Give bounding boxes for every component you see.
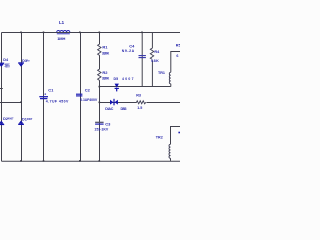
wire C4 branch x142 (141, 33, 143, 87)
svg-text:330K: 330K (102, 52, 110, 56)
resistor R2 (98, 69, 101, 80)
svg-text:TR2: TR2 (156, 135, 163, 139)
svg-text:C1: C1 (48, 88, 54, 93)
wire TR2 lower lead (170, 158, 172, 161)
svg-text:4007: 4007 (122, 77, 134, 81)
svg-text:153-1KV: 153-1KV (94, 128, 108, 132)
wire C1 branch x43.5 (43, 33, 45, 162)
svg-text:DIAC: DIAC (105, 107, 114, 111)
wire TR1 from right edge (171, 52, 180, 73)
svg-text:6: 6 (176, 54, 178, 58)
wire C2 branch x79.8 (80, 33, 82, 162)
diode D3 (18, 62, 24, 67)
wire AC stub y88.5 (0, 88, 3, 90)
wire left border branch (1, 33, 3, 162)
wire TR2 from right edge (171, 127, 181, 145)
wire bottom rail (2, 160, 181, 162)
diode D1 (18, 121, 24, 126)
diac DB3 (110, 99, 118, 106)
text cut at right edge near TR2 (178, 132, 180, 134)
svg-text:C4: C4 (129, 43, 135, 48)
capacitor C3 (95, 122, 104, 124)
svg-text:L1: L1 (59, 20, 65, 25)
diode D2 (0, 121, 4, 126)
svg-text:TR1: TR1 (158, 71, 165, 75)
svg-text:330K: 330K (102, 76, 110, 80)
wire top rail (2, 32, 181, 34)
svg-text:4007: 4007 (5, 65, 11, 68)
resistor R3 (137, 101, 146, 104)
svg-text:4007: 4007 (27, 117, 33, 121)
svg-text:C2: C2 (85, 88, 91, 93)
svg-text:N9-2A: N9-2A (122, 49, 135, 53)
svg-text:4o: 4o (27, 58, 30, 62)
svg-text:R5: R5 (176, 44, 180, 48)
svg-text:1.5: 1.5 (137, 106, 142, 110)
svg-text:R2: R2 (102, 70, 108, 75)
svg-text:68K: 68K (151, 59, 159, 63)
inductor L1 (57, 30, 70, 33)
svg-text:DB3: DB3 (121, 107, 127, 111)
wire mid horizontal y86.6 (100, 86, 171, 88)
capacitor C1 (39, 97, 48, 99)
capacitor C2 (76, 94, 82, 96)
resistor R4 (150, 48, 153, 59)
wire TR1 lower lead (170, 84, 172, 87)
wire diac horizontal y102.3 (100, 102, 137, 104)
svg-text:D5: D5 (114, 77, 119, 81)
wire AC input y102.2 (0, 102, 22, 104)
wire R4 branch x152 (151, 33, 153, 49)
transformer winding TR2 (169, 144, 171, 158)
capacitor C4 (139, 56, 146, 58)
svg-text:R3: R3 (136, 94, 141, 98)
svg-text:4.7UF 450V: 4.7UF 450V (46, 100, 69, 104)
svg-text:0.1UF400V: 0.1UF400V (80, 98, 98, 102)
C1 plus sign (44, 93, 46, 95)
svg-text:1MH: 1MH (57, 36, 65, 41)
svg-text:R1: R1 (102, 44, 108, 49)
svg-text:C3: C3 (105, 121, 111, 126)
diode D5 (115, 84, 119, 92)
node junction dots (20, 32, 143, 162)
wire bridge branch x21 (21, 33, 23, 162)
transformer winding TR1 (169, 72, 171, 84)
svg-text:4007: 4007 (8, 117, 14, 121)
wire R1 R2 C3 branch x99.3 (99, 33, 101, 45)
diode D4 (0, 63, 4, 67)
resistor R1 (98, 44, 101, 55)
